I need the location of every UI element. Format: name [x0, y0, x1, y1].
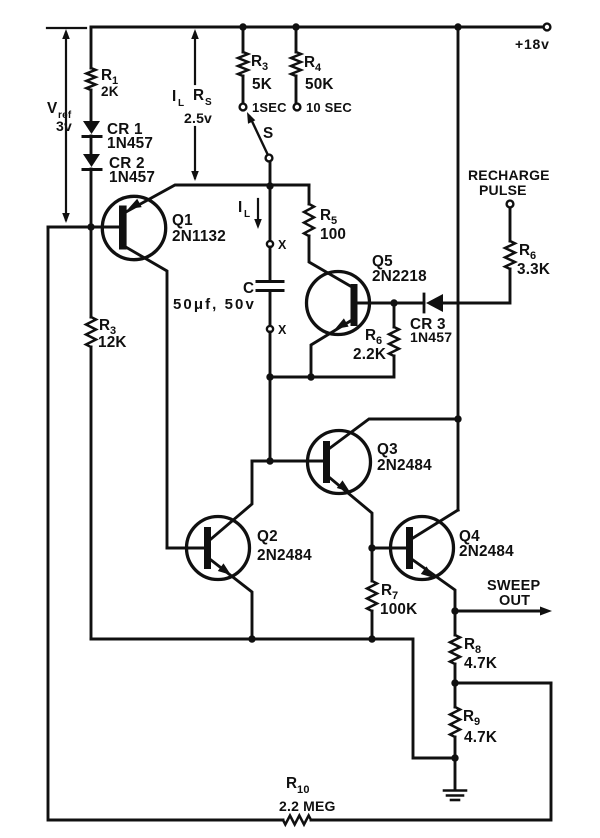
- label Q3 type 2N2484: [377, 457, 432, 474]
- svg-text:Q2: Q2: [257, 528, 278, 545]
- label R6: [365, 327, 382, 347]
- resistor R8 4.7K: [450, 635, 460, 664]
- svg-text:4.7K: 4.7K: [464, 729, 497, 746]
- wire rail to ground node: [373, 639, 451, 758]
- wire Q1 collector: [124, 246, 167, 548]
- label OUT: [499, 593, 530, 609]
- svg-text:I: I: [172, 88, 176, 105]
- svg-text:1SEC: 1SEC: [252, 100, 287, 115]
- node junction R7-rail: [368, 635, 375, 642]
- svg-text:1N457: 1N457: [410, 329, 452, 345]
- wire R3 to contact: [242, 76, 245, 103]
- wire Q5 base: [357, 302, 424, 305]
- svg-text:9: 9: [474, 716, 480, 728]
- label C value 50uf 50v: [173, 296, 254, 313]
- resistor R5 100: [304, 204, 314, 236]
- svg-text:2.2 MEG: 2.2 MEG: [279, 798, 336, 814]
- svg-text:4: 4: [315, 62, 322, 74]
- label R1: [101, 67, 118, 87]
- wire Q5 emitter: [311, 320, 352, 377]
- transistor Q5 2N2218: [307, 272, 370, 335]
- svg-text:100: 100: [320, 226, 346, 243]
- resistor R6 3.3K: [505, 241, 515, 269]
- wire R5 to Q5 collector: [309, 236, 352, 287]
- wire R3 12K bottom: [90, 347, 93, 639]
- resistor R6 2.2K: [389, 327, 399, 356]
- label R6 value 3.3K: [517, 261, 550, 278]
- label R6 value 2.2K: [353, 346, 386, 363]
- switch S pivot: [266, 155, 273, 162]
- label SWEEP: [487, 578, 540, 594]
- svg-text:R: R: [251, 53, 262, 70]
- label Q3: [377, 441, 398, 458]
- label Q1 type 2N1132: [172, 228, 226, 245]
- diode CR2: [83, 154, 101, 170]
- wire top +18v supply rail: [91, 26, 544, 29]
- wire Q1 base: [48, 226, 119, 229]
- label R4 value 50K: [305, 76, 334, 93]
- label CR3 type 1N457: [410, 329, 452, 345]
- svg-text:X: X: [278, 238, 287, 252]
- node Q1 base junction: [87, 223, 94, 230]
- wire capacitor to X2: [269, 292, 272, 326]
- wire Q3 emitter: [330, 478, 372, 548]
- svg-text:R: R: [101, 67, 112, 84]
- wire base node to R3 12K: [90, 227, 93, 317]
- svg-text:2.5v: 2.5v: [184, 110, 212, 126]
- resistor R4 50K: [291, 52, 301, 76]
- label CR1 type 1N457: [107, 135, 153, 152]
- wire R7 bottom: [371, 611, 374, 639]
- wire R5 top: [308, 185, 311, 204]
- wire CR3 to R6 3.3K: [443, 269, 510, 303]
- label R3: [251, 53, 268, 73]
- node junction sweep out: [451, 607, 458, 614]
- wire R9 bottom: [454, 737, 457, 758]
- label R6 recharge: [519, 242, 536, 262]
- label CR3: [410, 316, 446, 333]
- wire right vertical rail from +18v: [457, 27, 460, 510]
- svg-text:R: R: [519, 242, 530, 259]
- svg-text:PULSE: PULSE: [479, 182, 527, 198]
- node junction at Q3 base wire: [266, 457, 273, 464]
- wire Q4 emitter: [413, 560, 455, 611]
- svg-text:X: X: [278, 323, 287, 337]
- label 10 SEC: [306, 100, 352, 115]
- label R8 value 4.7K: [464, 655, 497, 672]
- wire R1 branch top: [90, 27, 93, 68]
- label Q5 type 2N2218: [372, 268, 427, 285]
- transistor Q3 2N2484: [308, 431, 371, 494]
- capacitor C: [257, 282, 283, 291]
- node IL RS dimension arrow: [191, 29, 199, 181]
- wire R3 branch top: [242, 27, 245, 52]
- node IL arrow: [254, 199, 262, 229]
- svg-text:Q3: Q3: [377, 441, 398, 458]
- label R10 value 2.2MEG: [279, 798, 336, 814]
- node Vref dimension arrow: [62, 29, 70, 223]
- node junction Q3 collector-rail: [454, 415, 461, 422]
- label X upper: [278, 238, 287, 252]
- label R9: [463, 708, 480, 728]
- label +18v: [515, 36, 550, 52]
- label R5 value 100: [320, 226, 346, 243]
- label S: [263, 125, 273, 142]
- ground: [444, 758, 466, 800]
- svg-text:1N457: 1N457: [109, 169, 155, 186]
- svg-text:S: S: [263, 125, 273, 142]
- label Q1: [172, 212, 193, 229]
- label X lower: [278, 323, 287, 337]
- label Q4 type 2N2484: [459, 543, 514, 560]
- svg-text:50K: 50K: [305, 76, 334, 93]
- svg-text:R: R: [286, 775, 297, 792]
- wire R9 top: [454, 683, 457, 707]
- label Q4: [459, 528, 480, 545]
- node junction Q2 emitter-rail: [248, 635, 255, 642]
- svg-text:2N2218: 2N2218: [372, 268, 427, 285]
- transistor Q4 2N2484: [391, 517, 454, 580]
- wire X1 to capacitor: [269, 247, 272, 280]
- svg-text:5K: 5K: [252, 76, 272, 93]
- wire Q1 emitter rail: [124, 185, 309, 213]
- label R1 value 2K: [101, 84, 119, 99]
- resistor R3 12K: [86, 317, 96, 347]
- svg-text:10 SEC: 10 SEC: [306, 100, 352, 115]
- wire R4 branch top: [295, 27, 298, 52]
- svg-text:L: L: [244, 209, 250, 220]
- wire Q2 emitter: [211, 560, 252, 639]
- svg-text:+18v: +18v: [515, 36, 550, 52]
- wire Q2 base: [167, 547, 204, 550]
- label IL: [238, 199, 250, 220]
- transistor Q1 2N1132: [102, 196, 165, 259]
- svg-text:2K: 2K: [101, 84, 119, 99]
- label C: [243, 280, 254, 297]
- resistor R1: [86, 68, 95, 90]
- node junction R8-R9: [451, 679, 458, 686]
- svg-text:R: R: [99, 317, 110, 334]
- wire switch node to X1: [269, 186, 272, 241]
- wire R6 to recharge terminal: [509, 208, 512, 241]
- label R8: [464, 636, 481, 656]
- wire bottom emitter rail: [91, 638, 373, 641]
- resistor R10 2.2MEG: [283, 816, 311, 825]
- wire Q4 base: [372, 547, 407, 550]
- svg-text:C: C: [243, 280, 254, 297]
- label R7 value 100K: [380, 601, 417, 618]
- label R4: [304, 54, 322, 74]
- label R3 value 12K: [98, 334, 127, 351]
- label CR1: [107, 121, 143, 138]
- svg-text:2N1132: 2N1132: [172, 228, 226, 245]
- svg-text:2.2K: 2.2K: [353, 346, 386, 363]
- node junction switch-emitter wire: [266, 182, 273, 189]
- node junction Q5 emitter-wire: [307, 373, 314, 380]
- label R3 value 5K: [252, 76, 272, 93]
- svg-text:Q1: Q1: [172, 212, 193, 229]
- wire cap node down: [269, 377, 272, 461]
- svg-text:R: R: [365, 327, 376, 344]
- wire CR2 to base node: [90, 169, 93, 227]
- svg-text:R: R: [381, 582, 392, 599]
- resistor R7 100K: [367, 581, 377, 611]
- wire Q4 collector: [413, 510, 458, 538]
- svg-text:V: V: [47, 100, 58, 117]
- label Q2: [257, 528, 278, 545]
- terminal +18v: [544, 24, 551, 31]
- svg-text:1N457: 1N457: [107, 135, 153, 152]
- label PULSE: [479, 182, 527, 198]
- label R3 12K: [99, 317, 116, 337]
- svg-text:3.3K: 3.3K: [517, 261, 550, 278]
- wire node to R6 bottom: [270, 356, 394, 377]
- terminal 1SEC contact: [240, 104, 247, 111]
- wire R1 to CR1: [90, 90, 93, 121]
- svg-text:50μf, 50v: 50μf, 50v: [173, 296, 254, 313]
- diode CR1: [83, 121, 101, 137]
- wire pivot to emitter rail: [269, 162, 272, 186]
- label Q2 type 2N2484: [257, 547, 312, 564]
- label R5: [320, 207, 337, 227]
- wire R8 bottom: [454, 664, 457, 683]
- wire left feedback down: [48, 227, 283, 820]
- node junction top rail / right rail: [454, 23, 461, 30]
- terminal 10SEC contact: [294, 104, 301, 111]
- svg-text:S: S: [205, 97, 212, 108]
- svg-text:SWEEP: SWEEP: [487, 578, 540, 594]
- label CR2: [109, 155, 145, 172]
- label 1SEC: [252, 100, 287, 115]
- node junction R9-ground: [451, 754, 458, 761]
- wire sweep out arrow: [455, 607, 552, 616]
- wire R10 to R8R9 node: [311, 683, 551, 820]
- svg-text:R: R: [304, 54, 315, 71]
- node junction rail-R4: [292, 23, 299, 30]
- label R9 value 4.7K: [464, 729, 497, 746]
- diode CR3: [424, 294, 443, 312]
- node junction Q3 emitter / Q4 base / R7: [368, 544, 375, 551]
- label CR2 type 1N457: [109, 169, 155, 186]
- svg-text:3v: 3v: [56, 118, 72, 134]
- svg-text:2N2484: 2N2484: [377, 457, 432, 474]
- label Q5: [372, 253, 393, 270]
- wire R7 top: [371, 548, 374, 581]
- svg-text:2N2484: 2N2484: [257, 547, 312, 564]
- svg-text:100K: 100K: [380, 601, 417, 618]
- wire Q3 base: [252, 460, 323, 463]
- svg-text:2N2484: 2N2484: [459, 543, 514, 560]
- svg-text:I: I: [238, 199, 242, 216]
- svg-text:4.7K: 4.7K: [464, 655, 497, 672]
- resistor R9 4.7K: [450, 707, 460, 737]
- label RECHARGE: [468, 167, 550, 183]
- wire R8R9 node to right: [455, 682, 551, 685]
- terminal recharge pulse: [507, 201, 514, 208]
- wire Q2 collector: [211, 461, 252, 539]
- svg-text:12K: 12K: [98, 334, 127, 351]
- svg-text:R: R: [463, 708, 474, 725]
- label 2.5v: [184, 110, 212, 126]
- wire Q3 collector: [330, 419, 457, 448]
- svg-text:R: R: [464, 636, 475, 653]
- node junction rail-R3: [239, 23, 246, 30]
- wire X2 to node: [269, 332, 272, 377]
- svg-text:10: 10: [297, 784, 310, 796]
- svg-text:R: R: [193, 87, 204, 104]
- svg-text:OUT: OUT: [499, 593, 530, 609]
- label 3v: [56, 118, 72, 134]
- label R7: [381, 582, 398, 602]
- node junction capacitor bottom: [266, 373, 273, 380]
- wire Vref top reference line: [47, 27, 86, 29]
- svg-text:L: L: [178, 98, 184, 109]
- resistor R3 5K: [238, 52, 248, 76]
- svg-text:3: 3: [262, 61, 268, 73]
- node junction base-R6: [390, 299, 397, 306]
- wire R6 top: [393, 303, 396, 327]
- svg-text:R: R: [320, 207, 331, 224]
- terminal X upper: [267, 241, 273, 247]
- transistor Q2 2N2484: [187, 517, 250, 580]
- label R10: [286, 775, 310, 796]
- terminal X lower: [267, 326, 273, 332]
- wire CR1 to CR2: [90, 136, 93, 154]
- label Vref: [47, 100, 72, 121]
- wire R4 to contact: [295, 76, 298, 103]
- label IL RS: [172, 87, 212, 109]
- wire R8 top: [454, 611, 457, 635]
- svg-text:RECHARGE: RECHARGE: [468, 167, 550, 183]
- switch S arm: [247, 112, 267, 153]
